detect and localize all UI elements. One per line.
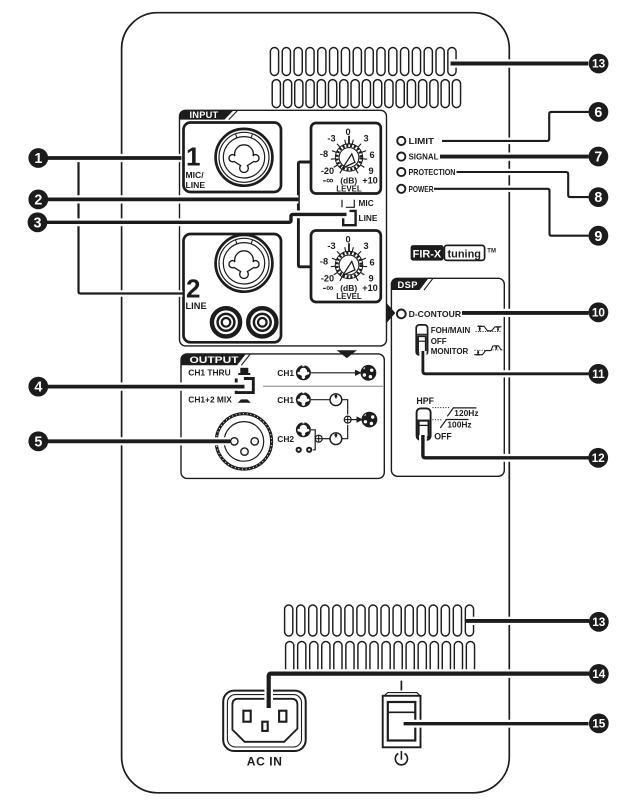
svg-text:100Hz: 100Hz (447, 419, 471, 429)
callout 2 (28, 190, 48, 210)
svg-text:2: 2 (186, 274, 200, 304)
callout 10 (589, 302, 609, 322)
svg-text:5: 5 (34, 434, 42, 450)
DSP pointer triangle (386, 302, 395, 323)
callout 7 (589, 147, 609, 167)
power standby symbol (395, 751, 407, 765)
svg-text:CH1+2 MIX: CH1+2 MIX (188, 395, 232, 405)
svg-text:13: 13 (592, 57, 606, 71)
vent slots bottom row 1 (285, 605, 474, 636)
svg-text:CH2: CH2 (277, 434, 294, 444)
MONITOR response icon (474, 346, 502, 355)
marker triangle on OUTPUT box (337, 350, 357, 358)
callout line 3 (47, 214, 347, 222)
MIX position icon (238, 399, 251, 402)
svg-text:HPF: HPF (416, 396, 434, 406)
svg-text:8: 8 (594, 190, 602, 206)
callout line 1 (48, 154, 182, 162)
svg-text:MONITOR: MONITOR (431, 347, 469, 356)
svg-text:CH1: CH1 (277, 395, 294, 405)
svg-text:PROTECTION: PROTECTION (409, 168, 456, 177)
svg-text:tuning: tuning (448, 249, 482, 261)
MIC/LINE switch (342, 200, 356, 225)
HPF 120Hz setting (432, 408, 476, 417)
callout 13 (top) (589, 54, 609, 74)
callout line 14 (269, 674, 589, 708)
callout line 4 (48, 383, 245, 391)
callout line 2 (48, 195, 299, 203)
svg-text:OUTPUT: OUTPUT (190, 355, 239, 365)
level knob 2 (320, 235, 378, 301)
svg-text:2: 2 (34, 193, 42, 209)
callout 3 (28, 212, 48, 232)
svg-text:6: 6 (594, 105, 602, 121)
svg-text:LINE: LINE (186, 301, 207, 311)
label 1 MIC/LINE (186, 142, 206, 191)
svg-text:13: 13 (592, 615, 606, 629)
callout line 11 (423, 351, 589, 374)
svg-text:MIC/: MIC/ (186, 170, 205, 180)
vent slots top row 2 (272, 80, 460, 108)
callout line 15 (404, 720, 589, 728)
svg-text:CH1 THRU: CH1 THRU (188, 367, 230, 377)
OUTPUT section tab (181, 354, 246, 365)
svg-text:14: 14 (592, 667, 606, 681)
rear panel outline (122, 13, 510, 793)
callout line 9 (434, 189, 589, 236)
D-CONTOUR switch labels (431, 326, 471, 356)
FIR-X tuning logo (411, 245, 496, 261)
svg-text:LIMIT: LIMIT (409, 137, 435, 146)
callout 14 (589, 664, 609, 684)
svg-text:11: 11 (592, 367, 605, 381)
svg-text:FIR-X: FIR-X (413, 249, 442, 261)
svg-text:SIGNAL: SIGNAL (409, 153, 439, 162)
OUTPUT section box (181, 354, 384, 479)
callout line 13 top (451, 59, 589, 67)
svg-text:OFF: OFF (431, 337, 447, 346)
callout line 7 (440, 152, 589, 160)
power switch (383, 693, 421, 748)
svg-text:3: 3 (34, 215, 42, 231)
svg-text:9: 9 (594, 229, 602, 245)
D-CONTOUR mode switch (416, 325, 427, 355)
svg-text:TM: TM (487, 248, 496, 254)
callout line 5 (48, 437, 231, 445)
power ON mark (400, 681, 402, 691)
callout line 10 (462, 309, 589, 317)
LED D-CONTOUR (397, 310, 406, 319)
flow diagram divider (263, 385, 384, 387)
callout line 8 (457, 172, 589, 197)
vent slots bottom row 2 (286, 642, 475, 673)
svg-text:120Hz: 120Hz (454, 408, 478, 418)
svg-text:CH1: CH1 (277, 368, 294, 378)
callout line 13 bottom (466, 617, 589, 625)
callout line 6 (442, 112, 589, 141)
callout 6 (589, 102, 609, 122)
svg-text:7: 7 (594, 150, 602, 166)
input 1 combo jack box (184, 123, 282, 193)
svg-text:OFF: OFF (434, 431, 452, 441)
svg-text:4: 4 (34, 380, 42, 396)
svg-text:LINE: LINE (359, 213, 378, 223)
THRU/MIX switch (236, 379, 253, 393)
svg-text:1: 1 (34, 151, 42, 167)
svg-text:15: 15 (592, 717, 606, 731)
svg-text:1: 1 (186, 142, 200, 172)
callout 13 (bottom) (589, 612, 609, 632)
svg-text:12: 12 (592, 451, 606, 465)
callout line 2 bracket (298, 162, 310, 267)
vent slots top row 1 (270, 48, 456, 76)
AC IN inlet (223, 691, 306, 751)
LED LIMIT (397, 137, 405, 145)
input 2 combo connector (216, 235, 273, 292)
THRU position icon (238, 368, 250, 375)
HPF 100Hz setting (432, 420, 468, 428)
callout 8 (589, 187, 609, 207)
INPUT section tab (180, 110, 234, 119)
svg-text:MIC: MIC (359, 198, 374, 208)
level knob 1 box (311, 123, 381, 194)
callout line 12 (423, 435, 589, 458)
svg-text:D-CONTOUR: D-CONTOUR (409, 310, 462, 319)
LED POWER (397, 185, 405, 193)
LED PROTECTION (397, 168, 405, 176)
XLR output connector (216, 414, 271, 469)
label 2 LINE (186, 274, 207, 312)
level knob 1 (320, 127, 378, 193)
callout 9 (589, 226, 609, 246)
svg-text:INPUT: INPUT (190, 110, 219, 120)
svg-text:DSP: DSP (398, 280, 418, 290)
svg-text:10: 10 (592, 306, 606, 320)
callout 12 (588, 448, 608, 468)
callout 4 (28, 377, 48, 397)
callout 5 (28, 431, 48, 451)
HPF switch (417, 408, 431, 440)
INPUT section box (180, 110, 387, 346)
callout 1 (28, 148, 48, 168)
FOH/MAIN response icon (476, 326, 502, 331)
LED SIGNAL (397, 153, 405, 161)
DSP section box (391, 278, 504, 476)
level knob 2 box (311, 231, 381, 303)
callout 15 (589, 714, 609, 734)
svg-text:FOH/MAIN: FOH/MAIN (431, 326, 471, 335)
DSP section tab (391, 278, 428, 290)
svg-text:AC IN: AC IN (247, 754, 283, 768)
input 2 RCA jack right (248, 308, 276, 336)
input 1 combo connector (216, 129, 273, 186)
svg-text:POWER: POWER (409, 185, 434, 194)
input 2 combo jack box (184, 234, 282, 342)
input 2 RCA jack left (212, 308, 240, 336)
svg-text:LINE: LINE (186, 180, 206, 190)
callout line 1 branch (79, 160, 183, 294)
callout 11 (589, 364, 609, 384)
